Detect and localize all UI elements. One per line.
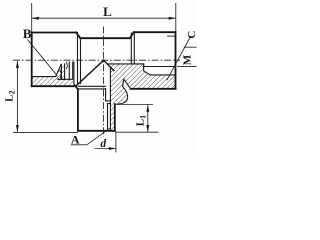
branch bore line right	[105, 89, 107, 101]
leader B	[28, 40, 58, 76]
shelf M	[177, 66, 196, 68]
right socket top edge	[134, 31, 176, 33]
branch right edge	[114, 104, 116, 131]
d right arrow	[109, 147, 116, 150]
svg-text:d: d	[100, 138, 106, 150]
left socket bottom edge	[32, 85, 76, 87]
L right arrow	[169, 17, 176, 20]
svg-text:B: B	[23, 26, 32, 41]
thread-end wedge left socket	[56, 64, 65, 79]
thread wedge edges	[56, 64, 65, 79]
middle bore bottom line	[107, 63, 144, 65]
arrowheads	[16, 17, 176, 150]
L2 top arrow	[16, 61, 19, 68]
right socket right edge	[175, 32, 177, 89]
svg-text:M: M	[181, 54, 193, 65]
leader C M diagonal	[167, 38, 190, 81]
fillet bulb and thread notch at branch/body junction	[115, 79, 131, 104]
branch socket end face upper line	[79, 85, 106, 87]
right socket counterbore step	[144, 64, 151, 75]
d dimension line	[95, 148, 116, 150]
internal section lines	[32, 33, 176, 131]
dimensions	[13, 3, 197, 153]
svg-text:A: A	[71, 133, 80, 147]
svg-text:L2: L2	[4, 91, 17, 102]
L left arrow	[32, 17, 39, 20]
L2 bottom extension	[13, 131, 78, 133]
L1 top arrow	[146, 105, 149, 112]
middle top edge	[80, 37, 129, 39]
L extension right	[175, 3, 177, 32]
branch socket end face	[78, 88, 106, 90]
branch left edge	[77, 89, 79, 131]
L1 top extension	[117, 104, 153, 106]
body outline: left socket	[32, 32, 176, 131]
left socket inner end face pair	[78, 33, 81, 85]
branch thread step	[106, 101, 111, 104]
vertical centerline	[103, 27, 105, 137]
V cone right diagonal	[104, 60, 114, 70]
right socket bottom edge	[131, 88, 176, 90]
L extension left	[31, 3, 33, 32]
leader A shelf	[71, 144, 87, 146]
L1 bottom extension	[116, 131, 159, 133]
hatched lower wall of left socket	[32, 77, 76, 87]
svg-text:L: L	[103, 4, 112, 19]
leader A diagonal	[87, 128, 110, 145]
chamfer left top	[76, 33, 80, 39]
d extension line	[115, 132, 117, 153]
chamfer to branch left	[76, 86, 78, 89]
right socket bore line	[143, 66, 175, 68]
V cone left diagonal	[76, 60, 104, 86]
counterbore ring lines	[58, 62, 73, 79]
shelf C	[184, 46, 197, 48]
right corner chamfer line	[168, 35, 176, 37]
branch bottom edge	[78, 130, 115, 132]
branch thread lines	[108, 67, 111, 131]
right socket thread band top	[150, 74, 175, 76]
left socket bore bottom line	[32, 76, 56, 78]
horizontal centerline	[13, 59, 180, 61]
left socket left edge	[31, 33, 33, 87]
thread runout arcs	[66, 62, 67, 68]
left socket top edge	[32, 32, 76, 34]
chamfer right top	[130, 32, 134, 38]
L2 bottom arrow	[16, 125, 19, 132]
right socket inner end face pair	[131, 33, 134, 64]
svg-text:C: C	[186, 31, 197, 39]
junction hatch block + branch right wall + right socket lower wall	[107, 64, 175, 131]
L1 bottom arrow	[146, 125, 149, 132]
L2 dimension line	[16, 61, 18, 132]
counterbore outer line with chamfer	[74, 62, 76, 86]
L1 dimension line	[147, 105, 149, 133]
centerlines	[13, 27, 180, 137]
L dimension line	[32, 17, 176, 19]
svg-text:L1: L1	[134, 115, 147, 126]
